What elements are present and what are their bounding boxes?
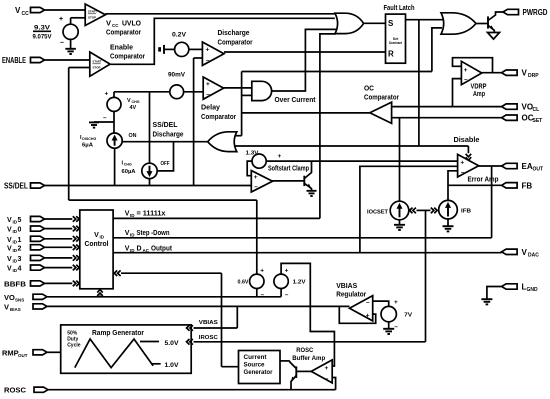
wire EA output to pin: [479, 165, 502, 167]
wire ROSC line: [48, 389, 336, 391]
svg-text:RMP: RMP: [2, 348, 19, 357]
wire VID input row: [45, 228, 73, 230]
pin OCSET: [502, 115, 517, 120]
wire VID=11111x output line: [113, 217, 320, 219]
transistor Q1 PWRGD open-collector: [487, 16, 489, 28]
voltage source 1.2V: [274, 274, 288, 288]
pin VID5: [31, 216, 45, 221]
svg-text:R: R: [388, 50, 394, 59]
ramp VBIAS input from VBIAS line: [187, 325, 193, 331]
svg-text:Fault Latch: Fault Latch: [384, 3, 415, 12]
svg-text:0: 0: [18, 227, 22, 234]
wire LGND pin to ground: [487, 287, 502, 300]
svg-text:Error Amp: Error Amp: [468, 177, 499, 184]
pin RMPOUT: [33, 350, 47, 355]
wire current source generator output to Q3 collector: [280, 360, 290, 362]
svg-text:Control: Control: [85, 241, 109, 248]
svg-text:Comparator: Comparator: [106, 28, 141, 37]
svg-text:Step -Down: Step -Down: [137, 230, 170, 237]
transistor Q2 softstart clamp: [303, 176, 305, 186]
svg-text:OUT: OUT: [533, 167, 544, 173]
svg-text:DISCHG: DISCHG: [82, 137, 96, 141]
svg-text:–: –: [285, 292, 289, 299]
wire OCSET to IOCSET current source: [399, 118, 401, 202]
voltage source VCHG 4V: [113, 92, 115, 98]
svg-text:Regulator: Regulator: [336, 290, 366, 299]
current source ICHG 60uA: [149, 92, 151, 163]
svg-text:1: 1: [18, 237, 22, 244]
svg-text:–: –: [206, 91, 210, 98]
svg-text:SET: SET: [533, 118, 543, 124]
pin EAOUT: [502, 163, 517, 168]
svg-text:Cycle: Cycle: [67, 343, 81, 349]
svg-text:V: V: [106, 19, 111, 28]
svg-text:ON: ON: [129, 133, 137, 139]
svg-text:+: +: [206, 46, 210, 53]
svg-text:3: 3: [18, 256, 22, 263]
svg-text:V: V: [15, 6, 21, 15]
svg-text:FB: FB: [522, 181, 533, 190]
svg-text:V: V: [127, 98, 131, 104]
svg-text:+: +: [366, 312, 370, 319]
svg-text:ROSC: ROSC: [4, 386, 27, 395]
wire VBIAS reg plus feedback loop: [339, 306, 375, 323]
wire Discharge output to Fault latch R input: [224, 51, 386, 53]
current mirror chevrons between IOCSET and IFB: [410, 208, 416, 214]
wire Disable drop from Q: [418, 20, 420, 146]
voltage source 1.3V softstart clamp: [252, 154, 266, 168]
svg-text:1.0V: 1.0V: [165, 363, 179, 369]
svg-text:V: V: [7, 217, 12, 224]
svg-text:Generator: Generator: [244, 370, 274, 376]
pin VDAC: [502, 249, 517, 254]
svg-text:90mV: 90mV: [168, 73, 185, 79]
svg-text:–: –: [60, 40, 64, 47]
wire Discharge comparator minus input: [194, 57, 203, 59]
svg-text:–: –: [254, 184, 258, 191]
wire OCSET line: [392, 117, 502, 119]
svg-text:+: +: [464, 67, 468, 74]
op-amp U4 Delay comparator: [203, 77, 223, 99]
wire from Discharge minus input down to SS/DEL line: [193, 58, 195, 186]
wire buffer output to transistor base: [297, 370, 311, 372]
svg-text:Ramp Generator: Ramp Generator: [92, 328, 144, 337]
op-amp U1 VCC UVLO comparator: [85, 4, 105, 26]
OR gate OR2 PWRGD: [441, 13, 476, 34]
svg-text:2: 2: [18, 245, 22, 252]
current source IDISCHG 6uA: [107, 133, 122, 148]
pin ROSC: [34, 387, 48, 392]
pin SS/DEL: [31, 183, 45, 188]
voltage source 90mV: [170, 85, 184, 99]
svg-text:DAC: DAC: [528, 252, 539, 258]
svg-text:4: 4: [18, 266, 22, 273]
pin VID0: [31, 226, 45, 231]
svg-text:D: D: [137, 245, 142, 252]
wire OR1 output to S input: [364, 22, 386, 24]
wire W1: 1.3V node to error amp plus input: [266, 160, 457, 162]
svg-text:V: V: [7, 266, 12, 273]
svg-text:5.0V: 5.0V: [165, 341, 179, 347]
svg-text:START: START: [93, 60, 102, 64]
pin VBIAS: [33, 304, 47, 309]
pin VOCL: [502, 104, 517, 109]
wire VID control right-side reference input: [114, 270, 120, 276]
op-amp U10 ROSC buffer amp (points left): [311, 360, 332, 383]
wire OC net horizontal to OR1 and OR2 risers: [242, 71, 432, 73]
wire VID input row: [45, 238, 73, 240]
Ramp Generator block: [61, 325, 192, 373]
svg-text:SNS: SNS: [15, 297, 24, 302]
svg-text:V: V: [522, 248, 528, 257]
wire VID input row: [45, 267, 73, 269]
battery symbol 0.2V reference: [163, 45, 165, 54]
svg-text:7V: 7V: [404, 313, 412, 319]
svg-text:0.6V: 0.6V: [238, 280, 249, 286]
svg-text:BIAS: BIAS: [10, 307, 21, 312]
svg-text:VBIAS: VBIAS: [199, 320, 218, 326]
wire mirror node down to IROSC line: [425, 210, 427, 341]
svg-text:Current: Current: [244, 355, 267, 361]
svg-text:VO: VO: [4, 293, 15, 302]
svg-text:V: V: [7, 237, 12, 244]
svg-text:Delay: Delay: [201, 103, 221, 112]
svg-text:Buffer Amp: Buffer Amp: [292, 355, 325, 362]
svg-text:+: +: [206, 81, 210, 88]
wire OFF switch from ICHG to ON line: [157, 142, 173, 171]
svg-text:OC: OC: [364, 84, 375, 93]
wire VDRP output to pin: [482, 72, 502, 74]
svg-text:Disable: Disable: [454, 135, 480, 144]
svg-text:+: +: [105, 91, 109, 98]
svg-text:0.2V: 0.2V: [172, 33, 186, 39]
op-amp U8 Error Amp: [458, 154, 479, 177]
voltage source 0.2V: [175, 42, 189, 56]
wire softstart op-amp output to clamp transistor base: [273, 180, 304, 182]
svg-text:Over Current: Over Current: [275, 95, 316, 104]
svg-text:VO: VO: [522, 103, 534, 112]
wire SS/DEL pin line to softstart clamp minus input: [45, 185, 252, 187]
svg-text:Comparator: Comparator: [110, 52, 145, 61]
svg-text:ID: ID: [100, 235, 105, 240]
svg-text:9.075V: 9.075V: [33, 34, 53, 41]
pin ENABLE: [31, 57, 45, 62]
svg-text:SS/DEL: SS/DEL: [153, 120, 178, 129]
svg-text:UVLO: UVLO: [122, 19, 141, 28]
svg-text:–: –: [366, 299, 370, 306]
svg-text:–: –: [461, 169, 465, 176]
ground stub left of VCHG: [94, 121, 114, 123]
svg-text:= 11111x: = 11111x: [137, 211, 166, 218]
svg-text:BBFB: BBFB: [4, 279, 27, 288]
wire EAout down to VID step-down line: [491, 166, 493, 238]
ramp triangle waveform: [75, 339, 153, 368]
voltage source 0.6V: [250, 274, 264, 288]
op-amp U6 OC comparator: [370, 102, 392, 123]
svg-text:PWRGD: PWRGD: [523, 8, 548, 17]
pin VID2: [31, 245, 45, 250]
svg-text:V: V: [7, 245, 12, 252]
svg-text:IFB: IFB: [461, 209, 471, 215]
wire OC comparator output net: to AND input2 and SS/DEL OR input: [242, 94, 252, 96]
svg-text:DRP: DRP: [528, 73, 539, 79]
svg-text:+: +: [394, 299, 398, 306]
pin LGND: [502, 284, 517, 289]
svg-text:–: –: [394, 324, 398, 331]
OR gate OR1 fault: [335, 13, 364, 33]
svg-text:ROSC: ROSC: [296, 347, 313, 354]
wire OverCurrent AND output up to OR1 input: [272, 29, 336, 91]
wire VID Step-Down line to EAout riser: [113, 237, 492, 239]
op-amp U2 Enable comparator: [90, 52, 110, 76]
wire FB pin line: [448, 184, 502, 186]
svg-text:ID: ID: [130, 233, 135, 238]
svg-text:V: V: [4, 302, 9, 311]
svg-text:OFF: OFF: [161, 161, 170, 167]
wire Disable line from fault to SS/DEL OR and error amp: [236, 145, 469, 147]
wire fault latch Q output to OR2: [406, 19, 445, 21]
svg-text:Discharge: Discharge: [153, 130, 184, 139]
wire VOSNS line to source minus terminals: [48, 296, 282, 298]
wire UVLO output to OR1: [105, 13, 334, 15]
wire VID input row: [45, 257, 73, 259]
pin VID4: [31, 265, 45, 270]
wire OR2 output to PWRGD transistor base: [476, 23, 488, 25]
svg-text:–: –: [325, 375, 329, 382]
svg-text:V: V: [522, 69, 528, 78]
current source IFB: [439, 200, 458, 219]
svg-text:STOP: STOP: [93, 66, 101, 70]
voltage source 7V: [381, 306, 396, 321]
svg-text:1.3V: 1.3V: [246, 151, 259, 157]
op-amp U3 Discharge comparator: [202, 42, 224, 65]
wire VCHG top rail to 90mV source: [114, 91, 170, 93]
svg-text:Output: Output: [151, 245, 173, 252]
svg-text:+: +: [278, 153, 282, 160]
svg-text:–: –: [261, 292, 265, 299]
ramp IROSC input chevrons + IROSC line: [187, 339, 193, 345]
svg-text:CHG: CHG: [124, 163, 132, 167]
ground below 9.3V source: [70, 39, 72, 48]
pin VID1: [31, 236, 45, 241]
transistor Q3 ROSC mirror: [295, 366, 297, 378]
svg-text:+: +: [254, 174, 258, 181]
feedback loop VDRP: [453, 58, 493, 73]
wire VOCL line: [392, 106, 502, 108]
wire VBIAS reg minus input to 7V source: [373, 301, 389, 306]
ground triangle below PWRGD emitter: [488, 33, 500, 40]
svg-text:5: 5: [18, 217, 22, 224]
svg-text:6µA: 6µA: [82, 143, 93, 149]
svg-text:Softstart Clamp: Softstart Clamp: [268, 164, 309, 173]
svg-text:CL: CL: [533, 107, 540, 113]
wire Enable comparator lower input from 0.6V net: [69, 67, 90, 69]
wire error amp minus loop to FB/IFB: [448, 171, 458, 201]
wire buffer minus input to ROSC line: [332, 378, 335, 390]
wire Delay output to Over Current AND gate: [224, 87, 252, 89]
svg-text:+: +: [59, 16, 63, 23]
svg-text:Enable: Enable: [110, 43, 133, 52]
wire ON switch line from IDISCHG to SS/DEL discharge OR gate: [122, 141, 208, 143]
svg-text:–: –: [206, 57, 210, 64]
svg-text:–: –: [103, 115, 107, 122]
svg-text:START: START: [88, 10, 97, 14]
svg-text:+: +: [285, 268, 289, 275]
svg-text:1.2V: 1.2V: [293, 280, 306, 286]
svg-text:S: S: [388, 19, 394, 28]
svg-text:–: –: [464, 76, 468, 83]
Current Source Generator block: [239, 351, 281, 384]
long vertical: VID=11111x signal up to OR1: [319, 72, 321, 219]
pin VCC: [31, 7, 45, 12]
chevron up into VID control bottom: [99, 295, 101, 296]
svg-text:+: +: [460, 160, 464, 167]
svg-text:4V: 4V: [130, 105, 137, 111]
svg-text:V: V: [94, 232, 99, 239]
svg-text:V: V: [7, 256, 12, 263]
op-amp U9 VBIAS regulator (points left): [350, 296, 373, 321]
svg-text:CC: CC: [22, 11, 30, 17]
pin BBFB: [31, 281, 45, 286]
svg-text:Comparator: Comparator: [364, 93, 399, 102]
svg-text:Comparator: Comparator: [201, 112, 236, 121]
svg-text:+: +: [260, 268, 264, 275]
AND gate Over Current: [252, 81, 272, 100]
pin FB: [502, 183, 517, 188]
svg-text:V: V: [7, 227, 12, 234]
svg-text:CHG: CHG: [132, 100, 140, 104]
svg-text:60µA: 60µA: [122, 169, 136, 175]
voltage source 9.3V UVLO reference: [70, 18, 72, 24]
svg-text:Source: Source: [244, 363, 266, 369]
svg-text:STOP: STOP: [88, 16, 96, 20]
svg-text:GND: GND: [527, 287, 539, 293]
VDRP minus input from VOCL line: [453, 79, 462, 107]
wire Enable output routed up to OR1: [110, 18, 335, 64]
svg-text:+: +: [325, 365, 329, 372]
wire RMPOUT to ramp box: [48, 351, 61, 353]
wire VID input row: [45, 282, 73, 284]
pin PWRGD: [503, 9, 519, 14]
svg-text:AC: AC: [143, 248, 150, 253]
svg-text:OUT: OUT: [18, 353, 28, 358]
fault latch box: [386, 14, 406, 63]
pin VID3: [31, 255, 45, 260]
svg-text:ID: ID: [130, 248, 135, 253]
pin VOSNS: [33, 294, 47, 299]
pin VDRP: [502, 70, 517, 75]
wire VBIAS line to VBIAS regulator output: [48, 305, 350, 307]
ground below clamp transistor: [307, 190, 317, 192]
wire VID input row: [45, 218, 73, 220]
wire OC comparator output left: [242, 112, 370, 114]
wire W2: VDAC line to error amp: [360, 166, 458, 252]
svg-text:EA: EA: [522, 162, 533, 171]
wire VID DAC Output line to VDAC pin: [113, 252, 502, 254]
VID Control block: [80, 210, 113, 289]
svg-text:Dominant: Dominant: [389, 41, 403, 45]
svg-text:Discharge: Discharge: [218, 28, 250, 37]
wire ENABLE to Enable comparator: [45, 59, 90, 61]
wire VID input row: [45, 246, 73, 248]
wire 1.2V reference to ROSC buffer amp plus input: [281, 263, 334, 366]
svg-text:ID: ID: [130, 213, 135, 218]
OR gate SS/DEL discharge control (points left): [208, 132, 237, 152]
svg-text:Amp: Amp: [473, 89, 485, 98]
svg-text:IROSC: IROSC: [199, 335, 219, 341]
wire 1.3V to op-amp plus input: [247, 161, 252, 176]
svg-text:Comparator: Comparator: [218, 38, 253, 47]
op-amp U7 softstart clamp: [251, 171, 272, 193]
svg-text:SS/DEL: SS/DEL: [4, 182, 28, 191]
current source IOCSET: [390, 201, 409, 220]
svg-text:IOCSET: IOCSET: [367, 210, 389, 216]
wire VCC to UVLO comparator: [45, 9, 86, 11]
wire VID reference down to current source generator input: [221, 273, 223, 367]
svg-text:ENABLE: ENABLE: [2, 56, 26, 65]
